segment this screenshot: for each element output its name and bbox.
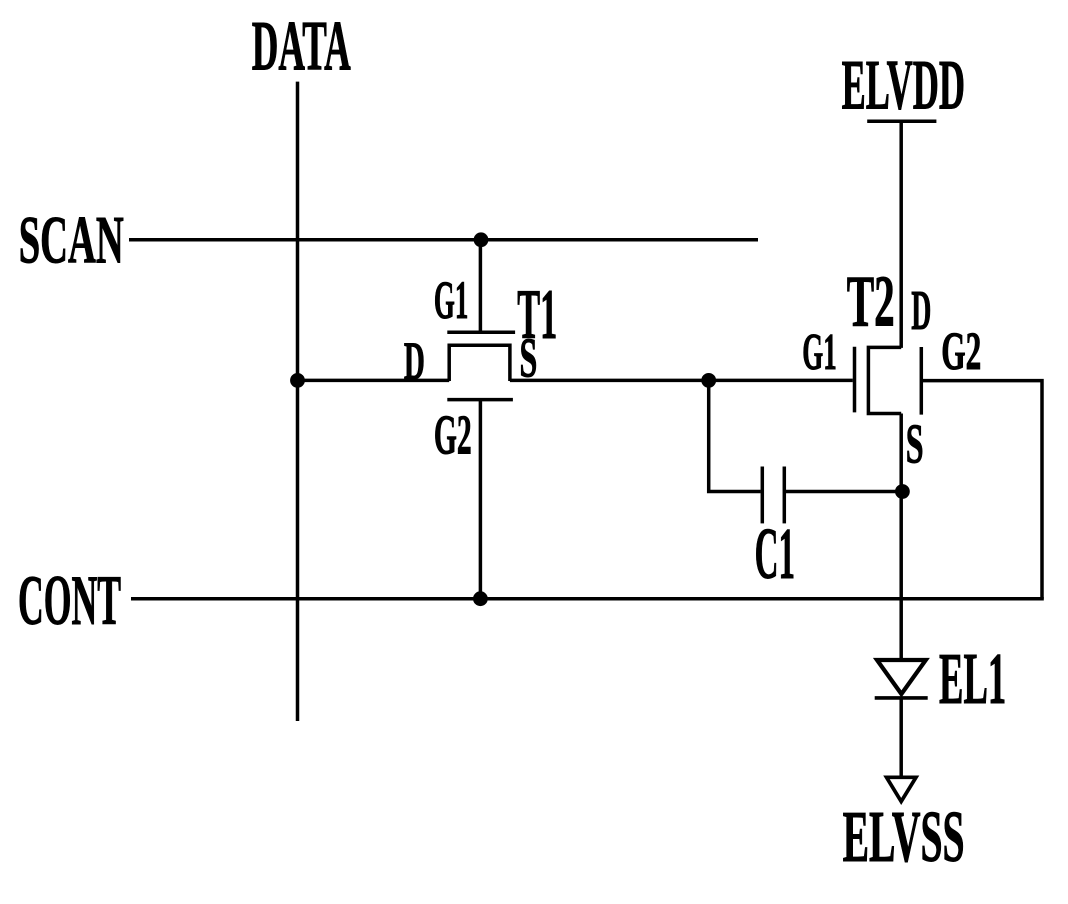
power ELVDD bar <box>867 119 936 123</box>
capacitor C1 right plate <box>783 467 787 524</box>
node junction dot SCAN x T1 gate G1 <box>474 232 489 247</box>
svg-text:S: S <box>906 413 924 475</box>
svg-text:D: D <box>911 280 931 342</box>
svg-text:SCAN: SCAN <box>19 201 124 277</box>
transistor T2 drain wire from ELVDD <box>899 121 903 348</box>
wire node row: T1 source to T2 gate G1 <box>510 379 853 383</box>
svg-text:ELVDD: ELVDD <box>842 47 965 125</box>
transistor T1 channel <box>449 345 510 381</box>
node junction dot DATA x node wire <box>290 373 305 388</box>
transistor T1 gate G2 bar <box>447 398 513 402</box>
svg-text:D: D <box>404 331 425 391</box>
svg-text:G1: G1 <box>802 323 837 381</box>
svg-text:G2: G2 <box>434 405 472 467</box>
diode EL1 cathode bar <box>875 696 928 700</box>
wire node down-branch to capacitor C1 <box>709 380 761 491</box>
wire DATA vertical line <box>296 82 300 721</box>
diode EL1 triangle <box>877 660 926 694</box>
transistor T1 gate G1 wire from SCAN <box>479 240 483 332</box>
svg-text:CONT: CONT <box>18 562 121 640</box>
wire SCAN horizontal line <box>129 238 758 242</box>
transistor T2 gate G2 bar <box>920 347 924 415</box>
transistor T1 gate G2 wire to CONT <box>479 400 483 599</box>
wire T2 source down to EL1 <box>899 414 903 661</box>
svg-text:G2: G2 <box>941 321 981 381</box>
wire capacitor C1 right plate to S node <box>786 490 902 494</box>
node junction dot node wire x C1 branch <box>701 373 716 388</box>
transistor T2 channel <box>868 347 901 413</box>
transistor T1 gate G1 bar <box>447 331 515 335</box>
capacitor C1 left plate <box>761 467 765 524</box>
svg-text:ELVSS: ELVSS <box>843 796 965 877</box>
svg-text:T2: T2 <box>847 261 895 342</box>
svg-text:EL1: EL1 <box>939 638 1006 719</box>
wire node row: DATA junction to T1 drain <box>296 379 449 383</box>
transistor T2 gate G1 bar <box>853 347 857 413</box>
wire EL1 to ELVSS <box>899 698 903 776</box>
svg-text:DATA: DATA <box>252 8 351 86</box>
svg-text:G1: G1 <box>434 270 469 330</box>
wire CONT horizontal line <box>131 597 1044 601</box>
svg-text:S: S <box>520 328 538 390</box>
node junction dot S wire x C1 wire <box>895 484 910 499</box>
wire T2 gate G2 to CONT (right loop) <box>923 381 1042 599</box>
node junction dot CONT x T1 gate G2 <box>473 591 488 606</box>
svg-text:C1: C1 <box>755 513 795 594</box>
terminal ELVSS arrow <box>887 777 917 801</box>
